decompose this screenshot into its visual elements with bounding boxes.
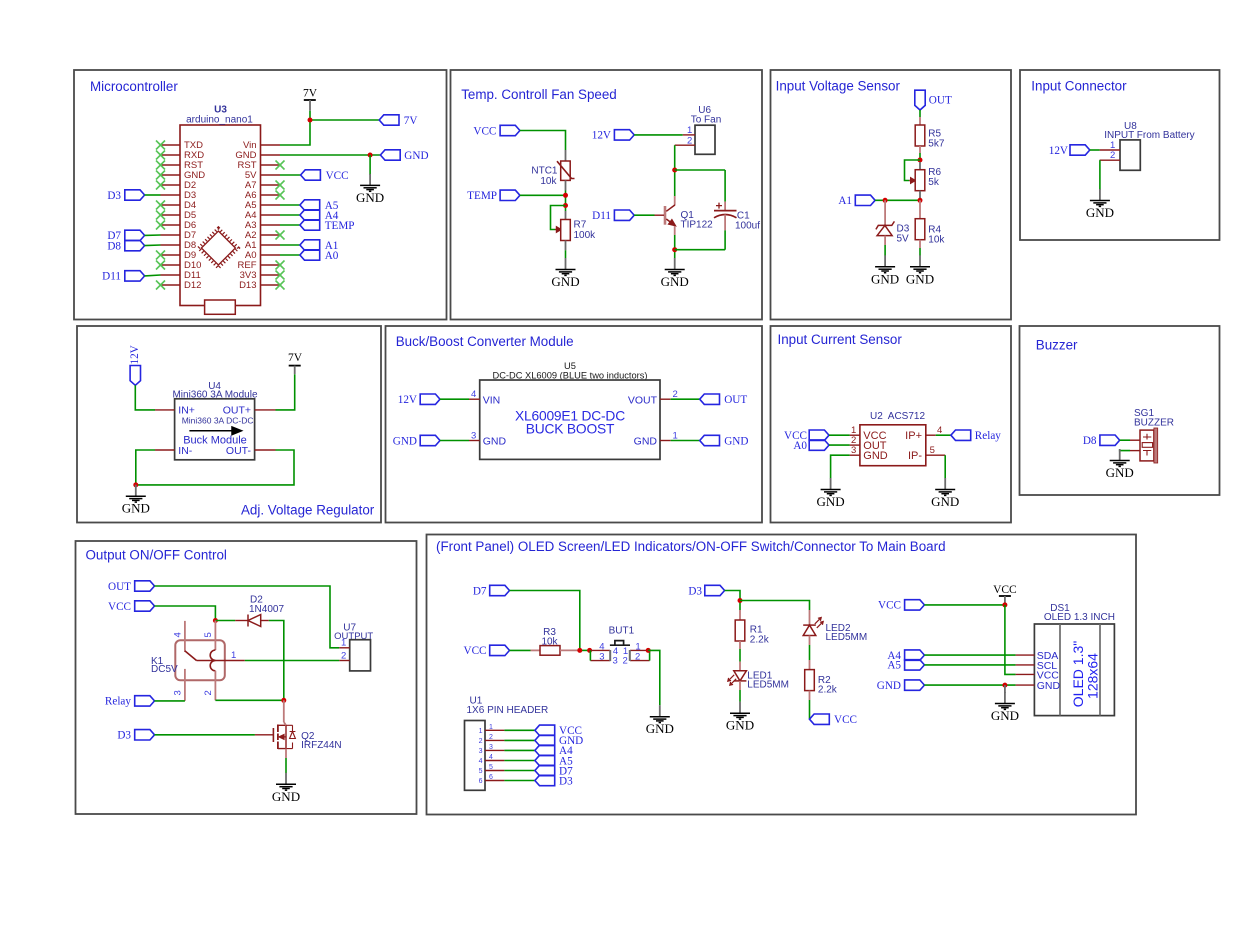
wire VOUT to OUT flag (671, 398, 700, 400)
svg-text:VIN: VIN (483, 394, 501, 406)
wire OUT- return (136, 450, 294, 485)
net flag TEMP (467, 190, 520, 202)
wire A1 (280, 244, 300, 246)
wire D11 to base (634, 214, 654, 216)
wire LED2 to R2 (809, 645, 811, 660)
wire A5 (280, 204, 300, 206)
svg-text:4: 4 (489, 754, 493, 761)
Q1 base pin (655, 214, 665, 216)
svg-text:VCC: VCC (463, 645, 486, 657)
svg-text:OLED 1.3 INCH: OLED 1.3 INCH (1044, 612, 1115, 623)
junction R5-R6 node (918, 158, 923, 163)
svg-text:3: 3 (599, 651, 604, 662)
wire 12V to fan pin1 (634, 134, 683, 136)
svg-text:Input Current Sensor: Input Current Sensor (778, 332, 903, 347)
svg-text:GND: GND (634, 436, 658, 448)
wire VCC to pin1 (829, 434, 850, 436)
BUT1 pin 3 (590, 660, 610, 662)
switch BUT1 button cap (610, 641, 630, 646)
svg-text:10k: 10k (540, 176, 557, 187)
capacitor C1 (714, 203, 737, 218)
thermistor NTC1 top pin (565, 150, 567, 161)
ground symbol buzzer (1106, 449, 1134, 480)
svg-text:1N4007: 1N4007 (249, 604, 284, 615)
relay K1 body (175, 640, 225, 680)
junction A1-D3 (883, 198, 888, 203)
U4 pin OUT+ (255, 409, 276, 411)
svg-text:D3: D3 (559, 775, 573, 787)
net flag Relay (105, 696, 155, 708)
svg-text:VCC: VCC (473, 125, 496, 137)
U2 pin 3 (850, 454, 860, 456)
BUT1 pin 2 (630, 660, 650, 662)
ground symbol U8 (1086, 189, 1114, 220)
svg-text:D8: D8 (1083, 435, 1097, 447)
svg-text:1: 1 (479, 728, 483, 735)
svg-text:TEMP: TEMP (325, 220, 355, 232)
BUT1 right loop wire (649, 650, 651, 660)
LED1 bottom pin (739, 681, 741, 690)
U6 pin 1 (683, 134, 695, 136)
wire GND to pin3 (440, 440, 469, 442)
wire relay common to U7 pin2 (245, 660, 339, 662)
resistor R1 (735, 620, 745, 641)
SG1 pin 2 (1130, 450, 1140, 452)
wire A1 node (875, 199, 920, 201)
net flag A0 (300, 250, 339, 262)
net flag GND (380, 150, 428, 162)
wire NTC to divider node (565, 191, 567, 212)
wire R6 wiper loop (905, 160, 921, 181)
ground symbol D3 (871, 255, 899, 286)
svg-text:GND: GND (724, 435, 748, 447)
wire R5 to R6 node (919, 153, 921, 162)
resistor R2 bottom pin (809, 691, 811, 700)
net flag 12V (592, 130, 634, 142)
wire R1 to LED1 (739, 649, 741, 662)
svg-text:4: 4 (471, 389, 476, 400)
U5 pin 4 VIN (469, 398, 480, 400)
svg-text:5k7: 5k7 (928, 139, 945, 150)
SG1 pin 1 (1130, 439, 1140, 441)
svg-text:VCC: VCC (993, 584, 1017, 596)
K1 pin 5 (214, 621, 216, 651)
wire D2 to drain rail (269, 621, 284, 701)
power symbol VCC (993, 584, 1017, 605)
junction D3 branch (738, 598, 743, 603)
svg-text:4: 4 (937, 425, 942, 436)
wire D3 to LED branches (725, 591, 740, 611)
svg-text:NTC1: NTC1 (531, 166, 558, 177)
svg-text:IP-: IP- (908, 450, 922, 462)
junction TEMP node (563, 193, 568, 198)
svg-text:GND: GND (863, 450, 888, 462)
net flag D11 (102, 271, 144, 283)
wire IP+ to Relay flag (936, 434, 951, 436)
wire GND to GND pin (924, 684, 1015, 686)
U1 inner pin numbers (479, 728, 483, 785)
ground symbol oled stem (1004, 685, 1006, 693)
svg-text:5: 5 (930, 445, 935, 456)
svg-text:DC-DC XL6009 (BLUE two inducto: DC-DC XL6009 (BLUE two inductors) (492, 371, 647, 381)
net flag VCC header (535, 725, 582, 737)
resistor R5 (915, 125, 925, 146)
LED2 top pin (809, 610, 811, 625)
ground symbol U2 left (817, 478, 845, 509)
capacitor C1 top pin (724, 202, 726, 210)
thermistor NTC1 (557, 161, 575, 180)
svg-text:5V: 5V (897, 233, 910, 244)
svg-text:3: 3 (613, 655, 618, 666)
net flag VCC (108, 601, 155, 613)
svg-text:7V: 7V (303, 88, 318, 100)
U2 pin 4 IP+ (926, 434, 936, 436)
no-connect X marks on left pins (156, 141, 165, 290)
svg-text:arduino_nano1: arduino_nano1 (186, 115, 253, 126)
wire 12V to VIN (440, 398, 469, 400)
svg-text:D11: D11 (102, 271, 121, 283)
svg-text:2.2k: 2.2k (818, 685, 838, 696)
svg-text:VCC: VCC (834, 714, 857, 726)
U3 bottom USB tab (205, 300, 236, 314)
potentiometer R7 bottom pin (565, 241, 567, 251)
svg-text:1: 1 (673, 430, 678, 441)
wire collector node to C1 branch (675, 169, 725, 171)
svg-text:A5: A5 (887, 660, 901, 672)
junction VCC rail (1002, 602, 1007, 607)
wire R7 to ground (565, 250, 567, 258)
net flag OUT (vertical) (915, 90, 952, 110)
wire VCC to R3 (510, 649, 531, 651)
microcontroller U3 body (180, 125, 261, 306)
buzzer SG1 body (1140, 428, 1158, 463)
ground symbol Q1 (661, 258, 689, 289)
K1 pin 2 (214, 671, 216, 701)
svg-text:R7: R7 (574, 220, 587, 231)
U5 pin 2 VOUT (660, 398, 671, 400)
svg-text:12V: 12V (129, 345, 141, 364)
svg-text:U2 ACS712: U2 ACS712 (870, 411, 925, 422)
net flag 12V (398, 394, 440, 406)
net flag 7V (379, 115, 417, 127)
net flag VCC oled (878, 600, 924, 612)
svg-text:1: 1 (489, 724, 493, 731)
net flag D3 header (535, 775, 573, 787)
svg-text:GND: GND (1037, 680, 1061, 692)
svg-text:OUT: OUT (929, 95, 952, 107)
BUT1 pin 4 (590, 649, 610, 651)
U2 pin 2 (850, 444, 860, 446)
R6 wiper arrow (909, 178, 915, 183)
wire D3 to ground (884, 245, 886, 256)
fan connector U6 body (695, 125, 715, 154)
resistor R4 bottom pin (919, 240, 921, 248)
U5 pin 1 GND (660, 440, 671, 442)
zener D3 top pin (884, 200, 886, 225)
ground symbol Q2 (272, 773, 300, 804)
svg-text:Buzzer: Buzzer (1036, 338, 1078, 353)
section box: Buck/Boost Converter Module (386, 326, 763, 523)
svg-text:3: 3 (489, 744, 493, 751)
wire emitter to ground node (674, 235, 676, 258)
wire A4 (280, 214, 300, 216)
section box: Adj Voltage Regulator (77, 326, 381, 523)
net flag GND header (535, 735, 583, 747)
svg-text:1: 1 (687, 125, 692, 136)
svg-text:Mini360 3A DC-DC: Mini360 3A DC-DC (182, 416, 254, 426)
svg-text:Input Connector: Input Connector (1031, 79, 1127, 94)
junction GND (368, 153, 373, 158)
net flag A1 (838, 195, 875, 207)
power symbol 7V (288, 352, 303, 374)
DS1 pin GND (1016, 684, 1035, 686)
junction drain node (281, 698, 286, 703)
svg-text:GND: GND (483, 436, 507, 448)
svg-text:1: 1 (341, 638, 346, 649)
net flag VCC (473, 125, 520, 137)
junction switch pin1 (646, 648, 651, 653)
K1 switch lever (185, 651, 197, 661)
wire D7 to switch node (510, 591, 580, 651)
wire D7 to pin (145, 234, 161, 236)
net flag D7 (473, 585, 510, 597)
transistor Q1 (665, 205, 676, 226)
resistor R1 top pin (739, 610, 741, 620)
U3 right pins Vin..D13 (261, 145, 281, 285)
U4 pin IN- (155, 449, 175, 451)
Q1 emitter pin (674, 226, 676, 235)
section box: Buzzer (1020, 326, 1220, 495)
net flag D8 (1083, 435, 1120, 447)
svg-text:LED5MM: LED5MM (826, 632, 868, 643)
ground symbol oled (991, 692, 1019, 723)
svg-text:7V: 7V (404, 115, 418, 127)
wire R7 wiper loop (551, 206, 566, 230)
potentiometer R7 (561, 220, 571, 241)
ground symbol U4 (122, 485, 150, 516)
net flag GND left (393, 435, 440, 447)
resistor R1 bottom pin (739, 641, 741, 649)
svg-text:D8: D8 (107, 240, 121, 252)
net flag VCC (301, 170, 349, 182)
svg-text:2: 2 (203, 690, 214, 695)
svg-text:D3: D3 (117, 730, 131, 742)
net flag D11 (592, 210, 634, 222)
U2 pin 5 IP- (926, 454, 945, 456)
svg-text:5: 5 (203, 632, 214, 637)
wire C1 top branch (724, 170, 726, 202)
wire VCC to rail (924, 604, 1005, 606)
svg-text:6: 6 (479, 778, 483, 785)
net flag GND oled (877, 680, 925, 692)
net flag A4 oled (887, 650, 924, 662)
Q2 source pin (285, 749, 287, 758)
net flag A4 (300, 210, 339, 222)
header U1 body (465, 721, 486, 791)
Q2 gate pin (255, 734, 274, 736)
resistor R3 left pin (531, 649, 541, 651)
wire VCC rail down to VCC pin (1005, 605, 1016, 675)
ground symbol BUT1 (646, 705, 674, 736)
junction A1-R4 (918, 198, 923, 203)
DS1 pin SDA (1016, 654, 1035, 656)
svg-text:IP+: IP+ (905, 430, 922, 442)
potentiometer R7 top pin (565, 211, 567, 220)
wire VCC to coil node (155, 606, 216, 621)
resistor R2 top pin (809, 660, 811, 670)
net flag D8 (107, 240, 144, 252)
U8 pin 1 (1100, 149, 1120, 151)
svg-text:1: 1 (231, 650, 236, 661)
svg-text:Microcontroller: Microcontroller (90, 79, 178, 94)
wire 5V to VCC flag (280, 174, 301, 176)
svg-text:OUT: OUT (108, 581, 131, 593)
svg-text:TIP122: TIP122 (681, 220, 714, 231)
wire VCC to NTC (520, 131, 566, 151)
svg-text:6: 6 (489, 774, 493, 781)
junction 7V (308, 118, 313, 123)
diode D2 (248, 615, 261, 627)
wire GND net (280, 154, 380, 156)
svg-text:7V: 7V (288, 352, 303, 364)
wire OUT to R5 (919, 110, 921, 117)
svg-text:A0: A0 (325, 250, 339, 262)
section box: Microcontroller (74, 70, 447, 320)
wire source to ground (285, 758, 287, 773)
net flag A5 oled (887, 660, 924, 672)
wire pin2 to ground (1099, 160, 1101, 190)
svg-text:D12: D12 (184, 280, 201, 291)
svg-text:Relay: Relay (975, 430, 1002, 442)
wire switch to ground (648, 650, 660, 705)
U3 right pin names (235, 140, 257, 291)
svg-text:100k: 100k (574, 230, 597, 241)
svg-text:12V: 12V (592, 130, 611, 142)
svg-text:D7: D7 (473, 585, 487, 597)
ground symbol LED1 (726, 702, 754, 733)
junction GND rail (1002, 683, 1007, 688)
svg-text:OUT-: OUT- (226, 445, 252, 457)
led LED1 (728, 671, 747, 685)
U3 left pins TXD..D12 (161, 145, 181, 285)
diode D2 right pin (261, 620, 269, 622)
svg-text:OUT: OUT (724, 394, 747, 406)
section box: Output ON/OFF Control (76, 541, 417, 814)
resistor R3 (540, 646, 560, 656)
junction D7 node (577, 648, 582, 653)
svg-text:GND: GND (877, 680, 901, 692)
junction ground node (133, 482, 138, 487)
BUT1 contact plates (610, 650, 630, 661)
svg-text:A1: A1 (838, 195, 852, 207)
junction switch pin4 (587, 648, 592, 653)
svg-text:Adj. Voltage Regulator: Adj. Voltage Regulator (241, 503, 375, 518)
Q2 drain pin (283, 700, 285, 722)
svg-text:Output ON/OFF Control: Output ON/OFF Control (86, 548, 227, 563)
wire pin2 to drain node (215, 699, 283, 701)
K1 pin 3 (184, 669, 186, 701)
svg-text:VCC: VCC (326, 170, 349, 182)
svg-text:(Front Panel) OLED Screen/LED: (Front Panel) OLED Screen/LED Indicators… (436, 539, 946, 554)
svg-text:10k: 10k (928, 234, 945, 245)
Q2 drain link (284, 722, 286, 725)
potentiometer R6 bottom pin (919, 191, 921, 201)
resistor R5 bottom pin (919, 146, 921, 153)
wire 12V to pin1 (1090, 149, 1100, 151)
svg-text:100uf: 100uf (735, 221, 760, 232)
net flag D3 led (688, 585, 724, 597)
svg-text:2: 2 (635, 651, 640, 662)
section box: Input Current Sensor (771, 326, 1012, 523)
U7 pin 1 (339, 647, 349, 649)
module U4 body (175, 399, 255, 460)
capacitor C1 bottom pin (724, 215, 726, 231)
zener diode D3 (876, 221, 895, 235)
svg-text:Temp. Controll Fan Speed: Temp. Controll Fan Speed (461, 87, 617, 102)
net flag 12V (vertical) (129, 345, 141, 385)
wire OUT+ to 7V (276, 374, 295, 410)
mosfet Q2 (273, 725, 295, 750)
svg-text:2: 2 (479, 738, 483, 745)
potentiometer R6 top pin (919, 162, 921, 170)
svg-text:D11: D11 (592, 210, 611, 222)
diode D2 left pin (235, 620, 248, 622)
svg-text:VCC: VCC (878, 600, 901, 612)
wire R3 to switch (578, 649, 590, 651)
net flag D3 (107, 190, 144, 202)
svg-text:GND: GND (393, 435, 417, 447)
svg-text:10k: 10k (541, 636, 558, 647)
wire D3 to pin (145, 194, 161, 196)
net flag D7 (107, 230, 144, 242)
svg-text:VOUT: VOUT (628, 394, 658, 406)
net flag A5 header (535, 755, 573, 767)
svg-text:2: 2 (673, 389, 678, 400)
wire C1 bottom to emitter node (724, 230, 726, 249)
net flag Relay (951, 430, 1001, 442)
transistor Q1 collector pin (674, 196, 676, 205)
svg-text:Buck/Boost Converter Module: Buck/Boost Converter Module (396, 334, 574, 349)
ground symbol micro (356, 174, 384, 205)
svg-text:3: 3 (173, 690, 184, 695)
DS1 pin VCC (1016, 673, 1035, 675)
net flag D3 (117, 730, 154, 742)
svg-text:LED5MM: LED5MM (747, 680, 789, 691)
svg-text:2: 2 (1110, 150, 1115, 161)
section box: Temp Controll Fan Speed (451, 70, 763, 320)
net flag OUT (700, 394, 748, 406)
potentiometer R6 (915, 170, 925, 191)
U4 pin IN+ (155, 409, 175, 411)
svg-text:D3: D3 (107, 190, 121, 202)
section box: Front Panel (427, 535, 1137, 815)
connector U7 body (350, 640, 371, 671)
junction emitter node (672, 247, 677, 252)
K1 coil (210, 650, 215, 671)
svg-text:A0: A0 (793, 440, 807, 452)
svg-text:1X6 PIN HEADER: 1X6 PIN HEADER (467, 705, 549, 716)
svg-text:GND: GND (404, 150, 428, 162)
K1 pin 4 (184, 621, 186, 652)
LED2 bottom pin (809, 636, 811, 646)
U2 pin 1 (850, 434, 860, 436)
wire D11 to pin (145, 274, 161, 277)
power symbol 7V (303, 88, 318, 111)
svg-text:2: 2 (623, 655, 628, 666)
wire GND pin1 to flag (671, 440, 700, 442)
net flag A1 (300, 240, 338, 252)
wire GND drop (369, 155, 371, 175)
